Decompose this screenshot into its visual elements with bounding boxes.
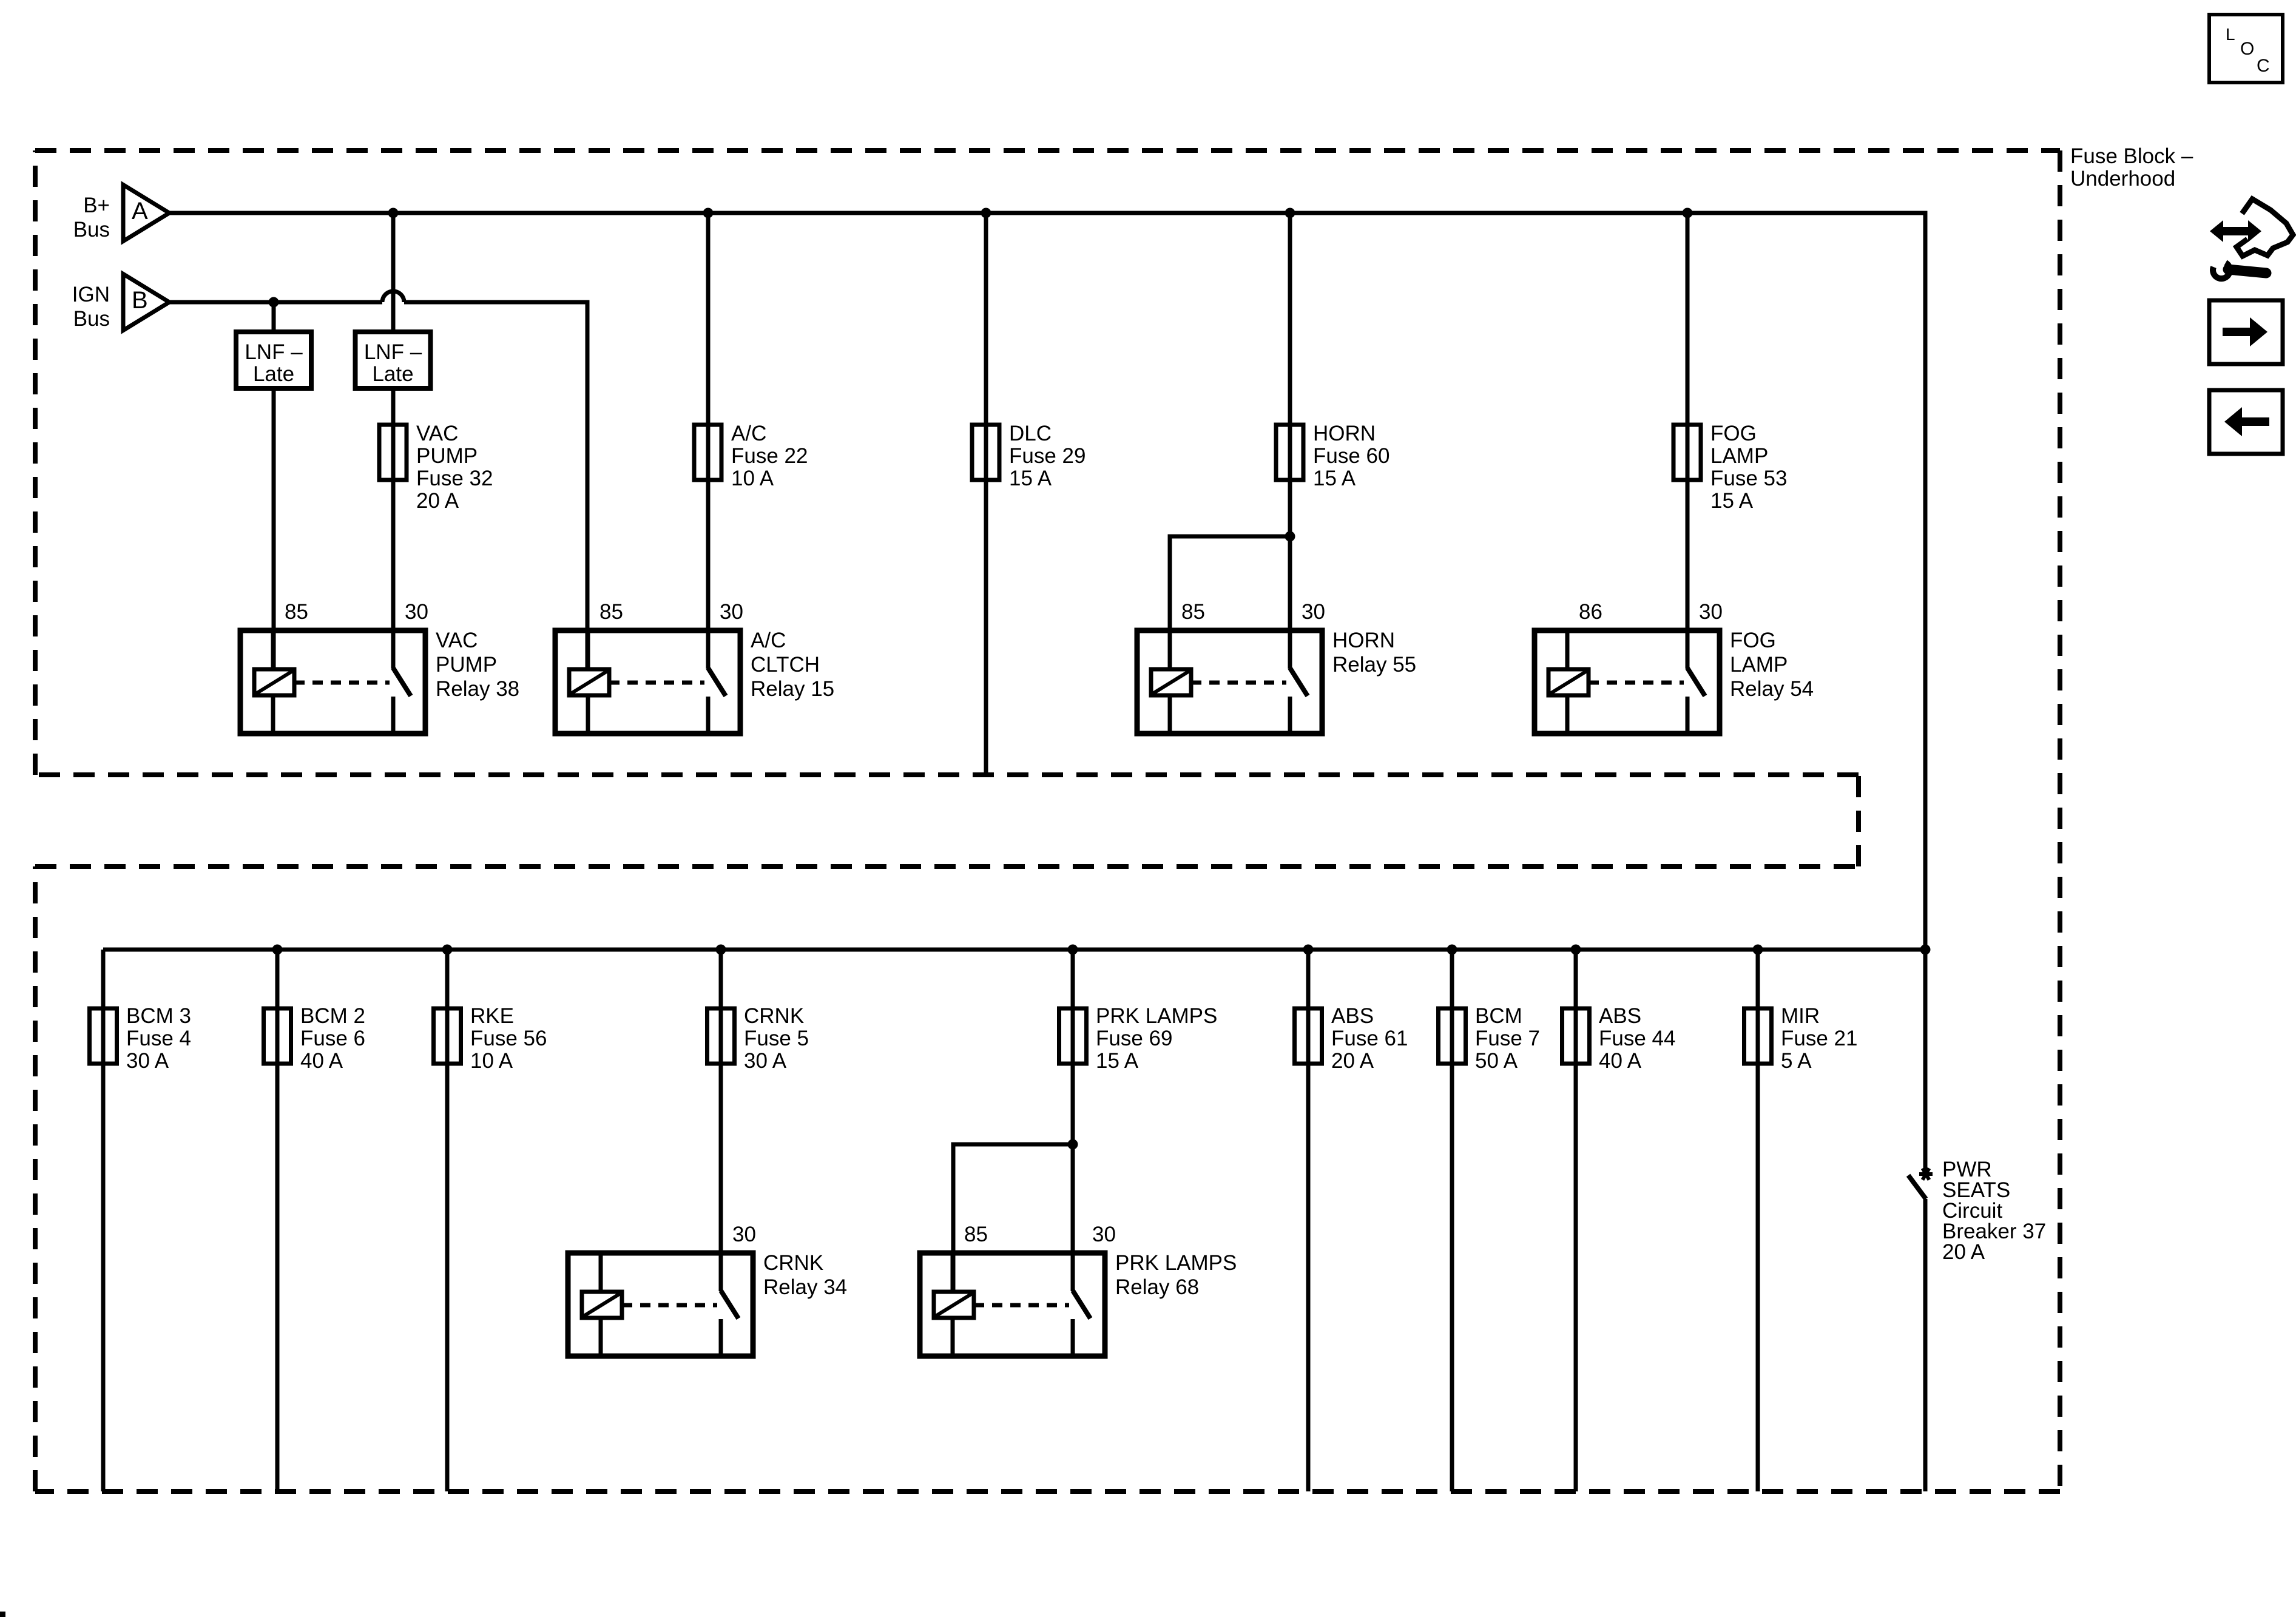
svg-text:BCM: BCM bbox=[1475, 1004, 1522, 1028]
svg-text:85: 85 bbox=[1181, 600, 1205, 624]
svg-text:Fuse 4: Fuse 4 bbox=[126, 1027, 191, 1050]
svg-text:IGN: IGN bbox=[72, 283, 110, 306]
svg-text:PUMP: PUMP bbox=[416, 444, 478, 468]
svg-text:86: 86 bbox=[1579, 600, 1602, 624]
svg-text:LNF –: LNF – bbox=[364, 340, 422, 364]
svg-text:VAC: VAC bbox=[416, 422, 458, 445]
svg-text:Bus: Bus bbox=[73, 307, 110, 331]
svg-text:PRK LAMPS: PRK LAMPS bbox=[1096, 1004, 1217, 1028]
svg-text:A/C: A/C bbox=[731, 422, 766, 445]
svg-text:LNF –: LNF – bbox=[245, 340, 303, 364]
svg-text:15 A: 15 A bbox=[1313, 467, 1356, 490]
svg-text:ABS: ABS bbox=[1331, 1004, 1374, 1028]
svg-text:HORN: HORN bbox=[1332, 629, 1395, 652]
svg-text:Underhood: Underhood bbox=[2070, 167, 2175, 191]
svg-text:CLTCH: CLTCH bbox=[751, 653, 820, 677]
svg-text:Fuse 21: Fuse 21 bbox=[1781, 1027, 1857, 1050]
svg-text:30: 30 bbox=[1699, 600, 1723, 624]
svg-text:Relay 54: Relay 54 bbox=[1730, 677, 1814, 701]
svg-text:Fuse 22: Fuse 22 bbox=[731, 444, 808, 468]
svg-text:BCM 3: BCM 3 bbox=[126, 1004, 191, 1028]
svg-text:Fuse Block –: Fuse Block – bbox=[2070, 144, 2193, 168]
svg-text:A: A bbox=[132, 198, 148, 224]
svg-text:RKE: RKE bbox=[470, 1004, 514, 1028]
svg-text:Bus: Bus bbox=[73, 218, 110, 241]
svg-text:B+: B+ bbox=[83, 194, 110, 217]
svg-text:Fuse 5: Fuse 5 bbox=[744, 1027, 809, 1050]
svg-text:MIR: MIR bbox=[1781, 1004, 1820, 1028]
svg-text:85: 85 bbox=[964, 1223, 988, 1246]
svg-text:50 A: 50 A bbox=[1475, 1049, 1518, 1073]
svg-text:PRK LAMPS: PRK LAMPS bbox=[1115, 1251, 1237, 1275]
svg-text:30 A: 30 A bbox=[126, 1049, 169, 1073]
svg-text:Fuse 6: Fuse 6 bbox=[300, 1027, 365, 1050]
svg-text:10 A: 10 A bbox=[470, 1049, 513, 1073]
svg-text:Fuse 29: Fuse 29 bbox=[1009, 444, 1086, 468]
svg-text:FOG: FOG bbox=[1730, 629, 1776, 652]
svg-text:40 A: 40 A bbox=[1599, 1049, 1642, 1073]
svg-text:30: 30 bbox=[732, 1223, 756, 1246]
svg-text:30: 30 bbox=[1302, 600, 1325, 624]
svg-text:85: 85 bbox=[599, 600, 623, 624]
svg-text:85: 85 bbox=[285, 600, 308, 624]
svg-text:Fuse 44: Fuse 44 bbox=[1599, 1027, 1675, 1050]
svg-text:ABS: ABS bbox=[1599, 1004, 1641, 1028]
svg-text:30 A: 30 A bbox=[744, 1049, 787, 1073]
svg-text:CRNK: CRNK bbox=[744, 1004, 804, 1028]
svg-text:20 A: 20 A bbox=[1331, 1049, 1374, 1073]
svg-text:15 A: 15 A bbox=[1096, 1049, 1139, 1073]
svg-text:Relay 15: Relay 15 bbox=[751, 677, 834, 701]
svg-text:5 A: 5 A bbox=[1781, 1049, 1812, 1073]
svg-text:Fuse 32: Fuse 32 bbox=[416, 467, 493, 490]
svg-text:DLC: DLC bbox=[1009, 422, 1052, 445]
svg-text:Fuse 7: Fuse 7 bbox=[1475, 1027, 1540, 1050]
svg-text:Late: Late bbox=[372, 362, 413, 386]
svg-text:B: B bbox=[132, 287, 148, 314]
svg-text:Relay 38: Relay 38 bbox=[436, 677, 519, 701]
svg-text:Fuse 60: Fuse 60 bbox=[1313, 444, 1389, 468]
svg-text:30: 30 bbox=[405, 600, 428, 624]
svg-text:A/C: A/C bbox=[751, 629, 786, 652]
svg-text:Fuse 53: Fuse 53 bbox=[1710, 467, 1787, 490]
svg-text:20 A: 20 A bbox=[1942, 1240, 1985, 1264]
svg-text:C: C bbox=[2257, 56, 2270, 76]
svg-text:L: L bbox=[2226, 25, 2235, 44]
svg-text:Relay 34: Relay 34 bbox=[763, 1275, 847, 1299]
svg-text:VAC: VAC bbox=[436, 629, 478, 652]
svg-text:Late: Late bbox=[253, 362, 294, 386]
svg-text:LAMP: LAMP bbox=[1710, 444, 1768, 468]
svg-text:15 A: 15 A bbox=[1710, 489, 1754, 513]
svg-text:BCM 2: BCM 2 bbox=[300, 1004, 365, 1028]
svg-text:Fuse 61: Fuse 61 bbox=[1331, 1027, 1408, 1050]
svg-text:40 A: 40 A bbox=[300, 1049, 343, 1073]
svg-text:LAMP: LAMP bbox=[1730, 653, 1788, 677]
svg-text:HORN: HORN bbox=[1313, 422, 1376, 445]
svg-text:FOG: FOG bbox=[1710, 422, 1757, 445]
svg-text:O: O bbox=[2240, 39, 2254, 59]
svg-text:30: 30 bbox=[1092, 1223, 1116, 1246]
svg-text:PUMP: PUMP bbox=[436, 653, 497, 677]
svg-text:10 A: 10 A bbox=[731, 467, 774, 490]
svg-text:20 A: 20 A bbox=[416, 489, 459, 513]
svg-text:Relay 55: Relay 55 bbox=[1332, 653, 1416, 677]
svg-text:CRNK: CRNK bbox=[763, 1251, 823, 1275]
svg-text:Relay 68: Relay 68 bbox=[1115, 1275, 1199, 1299]
svg-text:Fuse 56: Fuse 56 bbox=[470, 1027, 547, 1050]
svg-text:15 A: 15 A bbox=[1009, 467, 1052, 490]
svg-text:Fuse 69: Fuse 69 bbox=[1096, 1027, 1172, 1050]
svg-text:30: 30 bbox=[720, 600, 743, 624]
